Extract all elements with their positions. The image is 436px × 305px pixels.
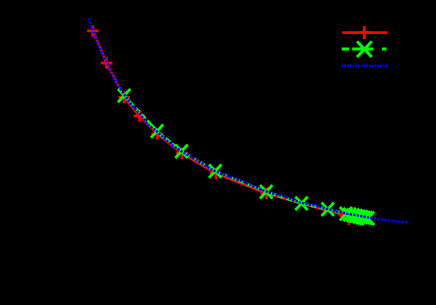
legend green dashed sample line: [342, 48, 387, 51]
green X markers: [118, 89, 374, 225]
legend red sample line: [342, 31, 387, 34]
legend red plus marker: [358, 26, 371, 39]
red data series line: [93, 31, 350, 222]
green dashed data series line: [124, 96, 368, 219]
legend green X marker: [357, 41, 372, 57]
red plus markers: [87, 25, 355, 225]
blue dotted fit curve: [88, 19, 407, 223]
legend blue dotted sample line: [342, 65, 388, 68]
